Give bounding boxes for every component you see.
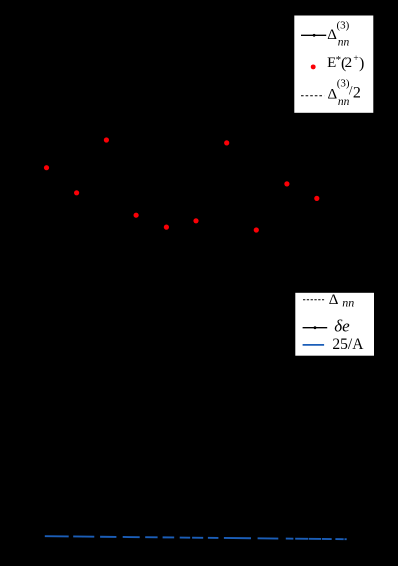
svg-text:25/A: 25/A (332, 336, 364, 353)
legend2 row2 sample line (solid with dot marker) (303, 326, 328, 329)
legend1 row2 red dot marker (311, 64, 316, 69)
svg-text:Δ: Δ (329, 292, 339, 308)
red data point 7 (224, 140, 229, 145)
svg-text:+: + (353, 54, 358, 64)
legend1 row3 sample line (dashed) (301, 95, 324, 97)
svg-text:δe: δe (334, 316, 350, 335)
svg-text:(3): (3) (337, 19, 350, 31)
red data point 1 (104, 137, 109, 142)
legend1 row1 sample line (solid with dot marker) (301, 34, 326, 37)
legend1 row2 label E*(2+) (327, 54, 364, 72)
legend box 2 (bottom) (295, 292, 375, 356)
legend2 row3 sample line (blue solid) (303, 344, 325, 346)
svg-text:2: 2 (345, 55, 353, 71)
legend2 row1 label Delta_nn (329, 292, 355, 309)
legend1 row3 label Delta_nn^(3)/2 (328, 78, 361, 108)
legend box 1 (top) (294, 15, 374, 113)
red data point 9 (314, 196, 319, 201)
red data point 6 (193, 218, 198, 223)
legend2 row1 sample line (dashed) (303, 299, 324, 301)
svg-text:): ) (359, 55, 364, 72)
red data point 8 (284, 181, 289, 186)
red data point 5 (164, 225, 169, 230)
svg-text:nn: nn (338, 36, 350, 48)
red data point 3 (74, 190, 79, 195)
legend1 row1 label Delta_nn^(3) (327, 19, 349, 48)
svg-text:(3): (3) (337, 78, 350, 90)
svg-text:nn: nn (342, 295, 354, 309)
red data point 2 (44, 165, 49, 170)
svg-text:nn: nn (338, 96, 350, 108)
svg-text:2: 2 (353, 84, 361, 101)
red data point 4 (134, 213, 139, 218)
blue dashed curve 25/A (45, 536, 347, 539)
red data point 10 (254, 227, 259, 232)
